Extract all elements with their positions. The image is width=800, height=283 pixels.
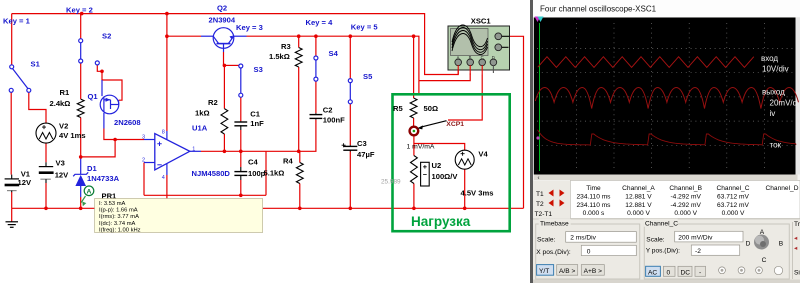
svg-text:Timebase: Timebase <box>540 221 569 228</box>
svg-text:S4: S4 <box>329 49 339 58</box>
svg-text:Y pos.(Div):: Y pos.(Div): <box>646 248 680 255</box>
current probe PR1 circle A <box>84 186 94 196</box>
svg-text:234.110 ms: 234.110 ms <box>577 194 612 201</box>
radio buttons <box>719 267 726 274</box>
wire: op-amp output line <box>201 120 316 152</box>
svg-text:Channel_D: Channel_D <box>766 185 799 192</box>
svg-text:S3: S3 <box>254 65 263 74</box>
svg-text:C: C <box>481 55 484 60</box>
wire: S1 throw to V2 <box>29 92 46 123</box>
svg-text:T2-T1: T2-T1 <box>535 211 553 218</box>
svg-text:200 mV/Div: 200 mV/Div <box>678 235 713 242</box>
lead: D1 cathode (blue) <box>80 157 82 174</box>
wire: channel B connection <box>419 74 470 81</box>
wire: R2 bottom lead <box>223 134 225 151</box>
svg-text:Time: Time <box>586 185 601 192</box>
controls panel <box>533 219 800 283</box>
wire: top rail from S1 to scope channel A riser <box>12 14 459 75</box>
wire: V4 minus to rail <box>464 169 466 208</box>
wire: S2 to R1 <box>80 63 82 99</box>
wire: S5 top lead <box>349 36 351 78</box>
meter U2 body <box>421 162 430 186</box>
switch S1 (SPDT, blade to V2) <box>9 65 31 93</box>
svg-text:вход: вход <box>761 54 778 63</box>
svg-text:234.110 ms: 234.110 ms <box>577 202 612 209</box>
svg-text:0: 0 <box>587 248 591 255</box>
svg-text:12V: 12V <box>18 178 32 187</box>
source V2 4V 1ms triangle <box>36 123 56 143</box>
wire: R1 to D1 node <box>80 118 82 158</box>
node: R2 on output line <box>223 150 227 154</box>
svg-text:выход: выход <box>762 88 785 97</box>
svg-text:1N4733A: 1N4733A <box>87 174 120 183</box>
svg-text:100Ω/V: 100Ω/V <box>432 172 459 181</box>
svg-text:50Ω: 50Ω <box>424 104 439 113</box>
node: D1 top branch <box>79 155 83 159</box>
wire: load node to V4 plus <box>414 144 465 151</box>
capacitor C4 100pF <box>234 167 247 180</box>
svg-text:4V 1ms: 4V 1ms <box>59 131 86 140</box>
wire: S4 top lead <box>315 36 317 56</box>
capacitor C3 plus sign <box>342 143 346 147</box>
svg-text:Key = 2: Key = 2 <box>66 6 93 15</box>
wire: Q2 collector lead <box>167 35 201 37</box>
svg-text:U1A: U1A <box>192 124 208 133</box>
capacitor C1 1nF <box>234 121 247 130</box>
ground symbol <box>6 222 19 228</box>
wire: scope ground terminal G to bottom rail <box>510 36 524 208</box>
svg-text:XCP1: XCP1 <box>446 121 464 128</box>
wire: S1 throw to V1 <box>10 92 12 174</box>
svg-text:0: 0 <box>667 269 671 276</box>
wire: C3 bottom to rail <box>349 152 351 209</box>
wire: D1 anode to bottom rail <box>80 197 82 208</box>
svg-text:12.881 V: 12.881 V <box>625 194 652 201</box>
svg-text:Key = 3: Key = 3 <box>236 23 263 32</box>
cursor top markers <box>535 17 541 23</box>
svg-text:C: C <box>762 257 767 264</box>
svg-text:R2: R2 <box>208 98 218 107</box>
svg-text:2 ms/Div: 2 ms/Div <box>570 235 596 242</box>
svg-text:Tr: Tr <box>794 221 800 228</box>
svg-text:2: 2 <box>142 158 145 164</box>
lead: D1 anode (blue) <box>80 186 82 197</box>
wire: Q2 emitter line to channel B riser <box>247 36 419 80</box>
timebase buttons Y/T A/B A+B <box>537 265 554 276</box>
cursor dot marker <box>536 136 539 139</box>
wire: R4 top lead <box>299 151 301 162</box>
svg-text:0.000 V: 0.000 V <box>722 210 745 217</box>
wire: U2 bottom to rail <box>413 184 415 209</box>
svg-text:Four channel oscilloscope-XSC1: Four channel oscilloscope-XSC1 <box>540 5 657 14</box>
svg-text:I(rms): 3.77 mA: I(rms): 3.77 mA <box>99 214 139 220</box>
op-amp U1A NJM4580D <box>155 134 190 170</box>
switch S2 (SPDT, closed down) <box>79 39 100 65</box>
wire: R3 bottom to output line <box>298 67 300 151</box>
svg-text:AC: AC <box>648 269 657 276</box>
node: Q2 base / R2 / S3 <box>223 64 227 68</box>
galvanometer U2 coil <box>411 156 418 184</box>
svg-text:Key = 4: Key = 4 <box>306 18 334 27</box>
svg-text:-4.292 mV: -4.292 mV <box>670 202 701 209</box>
svg-text:4: 4 <box>162 175 165 181</box>
svg-text:10V/div: 10V/div <box>762 65 789 74</box>
svg-text:1 mV/mA: 1 mV/mA <box>407 143 435 150</box>
svg-text:12V: 12V <box>55 171 69 180</box>
svg-text:100p: 100p <box>248 169 266 178</box>
wire: 12V riser to Q2 collector / pin8 <box>166 14 168 131</box>
cursor T1/T2 green line <box>539 23 541 171</box>
node: C3 on bottom rail <box>349 207 353 211</box>
resistor R2 1k <box>221 109 228 134</box>
svg-text:-2: -2 <box>695 248 701 255</box>
svg-text:I(dc): 3.74 mA: I(dc): 3.74 mA <box>99 221 136 227</box>
svg-text:A+B >: A+B > <box>584 268 602 275</box>
svg-text:C3: C3 <box>357 139 367 148</box>
scope grid vertical dashed lines <box>576 23 764 171</box>
svg-text:Key = 1: Key = 1 <box>3 17 31 26</box>
svg-text:47µF: 47µF <box>357 150 375 159</box>
wire: noninverting branch to D1 node <box>81 140 115 157</box>
node: R3/R4 on output line <box>297 150 301 154</box>
svg-text:63.712 mV: 63.712 mV <box>717 202 749 209</box>
svg-text:0.000 s: 0.000 s <box>583 210 605 217</box>
svg-text:D: D <box>746 240 751 247</box>
svg-text:ток: ток <box>770 141 782 150</box>
scope screen bezel <box>534 18 798 175</box>
node: 12V riser on top rail <box>165 12 169 16</box>
channel C waveform (current) <box>538 130 797 145</box>
svg-text:Channel_A: Channel_A <box>622 185 655 192</box>
scrollbar strip <box>534 175 798 181</box>
wire: S1 top lead <box>11 14 13 65</box>
svg-text:A/B >: A/B > <box>559 268 575 275</box>
svg-text:V4: V4 <box>478 150 488 159</box>
resistor R5 50 <box>410 98 417 118</box>
wire: op-amp pin2 feedback riser <box>143 163 145 196</box>
svg-text:R1: R1 <box>60 88 70 97</box>
lead: Q2 collector stub <box>201 35 213 37</box>
wire: scope channel C to XCP1 <box>448 75 482 121</box>
svg-text:Channel_C: Channel_C <box>645 221 678 228</box>
svg-text:25.989: 25.989 <box>381 179 401 186</box>
wire: R2 top lead <box>223 65 225 108</box>
svg-text:1nF: 1nF <box>250 119 264 128</box>
svg-text:100nF: 100nF <box>323 115 345 124</box>
svg-text:Channel_B: Channel_B <box>669 185 702 192</box>
capacitor C3 47uF polarized <box>343 145 357 151</box>
channel select dial <box>754 235 769 250</box>
wire: ring to load node <box>413 135 415 143</box>
lead: Q1 drain (blue) <box>101 80 103 96</box>
wire: feedback bottom rail <box>144 194 266 196</box>
wire: S2 throw to Q1 gate node <box>97 65 102 71</box>
svg-text:X pos.(Div):: X pos.(Div): <box>536 249 571 256</box>
oscilloscope window XSC1 (right panel) <box>530 0 800 283</box>
battery V1 12V <box>5 175 20 193</box>
XCP1 clamp arm <box>417 121 446 130</box>
svg-text:S1: S1 <box>31 60 41 69</box>
svg-text:A: A <box>760 229 765 236</box>
T1/T2 arrow buttons <box>549 190 565 207</box>
svg-text:R5: R5 <box>393 104 403 113</box>
svg-text:Channel_C: Channel_C <box>717 185 750 192</box>
transistor Q2 2N3904 NPN <box>213 28 234 49</box>
svg-text:Scale:: Scale: <box>537 237 555 244</box>
lead: op-amp pin3 stub <box>144 139 155 141</box>
resistor R4 5.1k <box>296 163 303 184</box>
wire: Q1 gate loop <box>102 71 122 100</box>
svg-text:Q1: Q1 <box>88 92 99 101</box>
svg-text:Scale:: Scale: <box>646 237 664 244</box>
wire: Q1 source to op-amp pin3 <box>104 129 144 140</box>
svg-text:D: D <box>492 55 495 60</box>
lead: Q1 source (blue) <box>103 113 105 129</box>
svg-text:V2: V2 <box>59 122 68 131</box>
lead: Q2 emitter stub <box>234 35 247 37</box>
node: pin3 branch <box>113 138 117 142</box>
XCP1 ring terminal <box>410 127 419 136</box>
svg-text:1kΩ: 1kΩ <box>195 109 210 118</box>
svg-text:Key = 5: Key = 5 <box>351 23 379 32</box>
current probe PR1 arrow <box>81 196 86 206</box>
wire: R4 bottom to rail <box>299 184 301 209</box>
svg-text:-: - <box>699 269 701 276</box>
svg-text:B: B <box>469 55 472 60</box>
wire: node to S3 <box>224 64 239 66</box>
svg-text:A: A <box>457 55 460 60</box>
wire: channel B stub into load box <box>418 81 420 95</box>
lead: op-amp pin4 stub <box>166 162 168 175</box>
switch S5 (closed) <box>348 79 352 104</box>
transistor Q1 2N2608 p-JFET <box>100 95 119 114</box>
svg-text:R3: R3 <box>281 42 291 51</box>
readout table <box>533 181 800 220</box>
node: R5 tap on emitter line <box>412 34 416 38</box>
battery V3 12V <box>39 162 54 183</box>
source V4 4.5V 3ms triangle <box>455 150 474 169</box>
node: pin4 on bottom rail <box>165 207 169 211</box>
wire: S4 to C2 <box>315 81 317 113</box>
capacitor C2 100nF <box>310 113 323 120</box>
wire: op-amp pin4 to bottom rail <box>166 175 168 208</box>
svg-text:63.712 mV: 63.712 mV <box>717 194 749 201</box>
resistor R3 1.5k <box>295 48 302 67</box>
svg-text:V3: V3 <box>56 159 65 168</box>
scope grid horizontal dashed lines <box>537 49 795 146</box>
wire: C1 bottom to output node <box>240 130 242 151</box>
wire: ground stub <box>11 208 13 221</box>
wire: R5 bottom to XCP1 ring <box>413 118 415 127</box>
switch S3 (closed) <box>239 64 243 97</box>
svg-text:T1: T1 <box>536 191 544 198</box>
svg-text:iv: iv <box>770 109 776 118</box>
node: collector line junction <box>165 34 169 38</box>
wire: V3 minus to bottom rail <box>45 183 47 208</box>
svg-text:XSC1: XSC1 <box>471 16 492 25</box>
lead: Q2 base stub <box>223 48 225 52</box>
diode D1 1N4733A zener <box>73 172 88 186</box>
lead: op-amp pin2 stub <box>144 162 155 164</box>
svg-text:Q2: Q2 <box>217 3 227 12</box>
svg-text:S5: S5 <box>363 72 373 81</box>
node: C4 on feedback rail <box>239 194 243 198</box>
wire: S2 top lead <box>80 14 82 39</box>
wire: Q2 base to S3/R2 node <box>223 52 225 65</box>
probe tooltip readings <box>95 199 263 234</box>
node: Q1 gate / S2 throw <box>100 70 104 74</box>
svg-text:5.1kΩ: 5.1kΩ <box>264 169 285 178</box>
switch S4 (closed) <box>314 56 318 81</box>
svg-text:C1: C1 <box>250 109 260 118</box>
oscilloscope icon terminals A B C D <box>455 55 497 75</box>
wire: bottom ground rail <box>12 207 524 209</box>
node: S5 tap on emitter line <box>349 34 353 38</box>
node: R4 on bottom rail <box>298 207 302 211</box>
svg-text:I(p-p): 1.66 mA: I(p-p): 1.66 mA <box>99 208 138 214</box>
node: V3 on bottom rail <box>44 207 48 211</box>
svg-text:D1: D1 <box>87 164 97 173</box>
wire: C4 top lead <box>240 151 242 167</box>
svg-text:2N3904: 2N3904 <box>209 16 236 25</box>
svg-text:2N2608: 2N2608 <box>114 118 141 127</box>
svg-text:0.000 V: 0.000 V <box>627 210 650 217</box>
svg-text:8: 8 <box>162 129 165 135</box>
svg-text:I: 3.53 mA: I: 3.53 mA <box>99 201 126 207</box>
load box (Nagruzka) <box>393 94 510 231</box>
wire: V1 minus to bottom rail <box>11 192 13 208</box>
wire: R3 top lead <box>298 36 300 47</box>
svg-text:U2: U2 <box>432 161 442 170</box>
wire: C4 bottom to feedback rail <box>240 180 242 195</box>
node: V4 on bottom rail <box>463 207 467 211</box>
resistor R1 2.4k <box>77 99 84 117</box>
node: S2 tap on top rail <box>80 12 84 16</box>
wire: V2 minus to V3 plus <box>45 143 47 162</box>
svg-text:B: B <box>779 240 784 247</box>
channel A waveform (input triangle) <box>538 57 754 68</box>
node: C1/C4 on output line <box>239 150 243 154</box>
svg-text:C4: C4 <box>248 157 258 166</box>
svg-text:Y/T: Y/T <box>539 268 549 275</box>
svg-text:-4.292 mV: -4.292 mV <box>670 194 701 201</box>
trigger section fragment at right edge <box>792 222 794 279</box>
node: R3 tap on emitter line <box>297 34 301 38</box>
channel B waveform (output) <box>535 88 798 109</box>
svg-text:I(freq): 1.00 kHz: I(freq): 1.00 kHz <box>99 227 141 233</box>
wire: emitter line to R5 <box>413 36 415 98</box>
wire: output node to feedback rail <box>265 151 267 195</box>
node: D1 on bottom rail <box>79 207 83 211</box>
svg-text:12.881 V: 12.881 V <box>625 202 652 209</box>
oscilloscope icon XSC1 <box>448 25 510 70</box>
svg-text:1.5kΩ: 1.5kΩ <box>269 52 290 61</box>
svg-text:2.4kΩ: 2.4kΩ <box>50 99 71 108</box>
svg-text:NJM4580D: NJM4580D <box>192 169 231 178</box>
svg-text:DC: DC <box>681 269 691 276</box>
svg-text:R4: R4 <box>283 157 293 166</box>
wire: load node to U2 <box>413 144 415 156</box>
node: U2 on bottom rail <box>412 207 416 211</box>
svg-text:20mV/d: 20mV/d <box>770 99 798 108</box>
svg-text:4.5V 3ms: 4.5V 3ms <box>461 189 494 198</box>
wire: S3 to C1 <box>240 97 242 121</box>
lead: op-amp pin1 stub <box>190 150 201 152</box>
svg-text:3: 3 <box>142 135 145 141</box>
svg-text:C2: C2 <box>323 106 333 115</box>
lead: op-amp pin8 stub <box>166 131 168 141</box>
channel_c coupling buttons AC 0 DC - <box>646 266 661 276</box>
svg-text:Нагрузка: Нагрузка <box>411 214 471 229</box>
svg-text:1: 1 <box>192 147 195 153</box>
svg-text:0.000 V: 0.000 V <box>674 210 697 217</box>
node: S4 tap on emitter line <box>314 34 318 38</box>
svg-text:S2: S2 <box>102 32 111 41</box>
wire: S5 to C3 <box>349 104 351 145</box>
svg-text:T2: T2 <box>536 201 544 208</box>
svg-text:Si: Si <box>794 269 800 276</box>
svg-text:A: A <box>87 189 92 196</box>
